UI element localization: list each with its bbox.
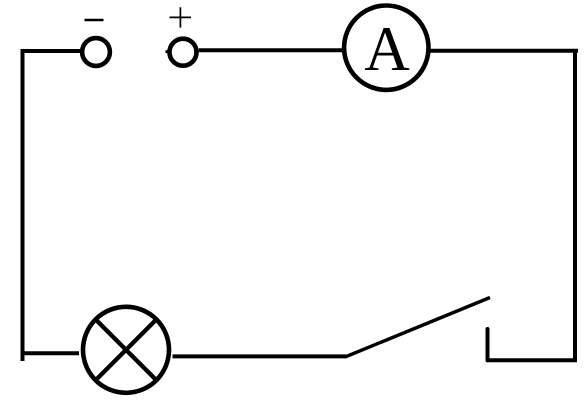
wire left vertical bbox=[21, 51, 25, 361]
plus sign bbox=[170, 7, 192, 27]
minus sign bbox=[85, 19, 104, 22]
ammeter A1 circle bbox=[344, 6, 428, 90]
wire bottom right horizontal bbox=[487, 358, 577, 362]
terminal positive bbox=[170, 39, 197, 66]
svg-text:A: A bbox=[364, 14, 410, 84]
wire lamp to switch pivot bbox=[173, 354, 347, 358]
lamp L1 circle bbox=[83, 307, 169, 393]
terminal negative bbox=[82, 38, 110, 66]
wire right vertical bbox=[573, 49, 577, 360]
lamp L1 cross bbox=[95, 318, 158, 381]
wire stub left of positive terminal bbox=[166, 50, 170, 53]
wire ammeter to top right corner bbox=[431, 49, 579, 53]
wire left vertical to lamp bbox=[21, 351, 79, 355]
wire plus terminal to ammeter bbox=[199, 48, 342, 52]
wire top left horizontal bbox=[21, 49, 81, 53]
switch S1 blade bbox=[345, 298, 490, 358]
switch S1 fixed contact stub bbox=[486, 329, 490, 360]
